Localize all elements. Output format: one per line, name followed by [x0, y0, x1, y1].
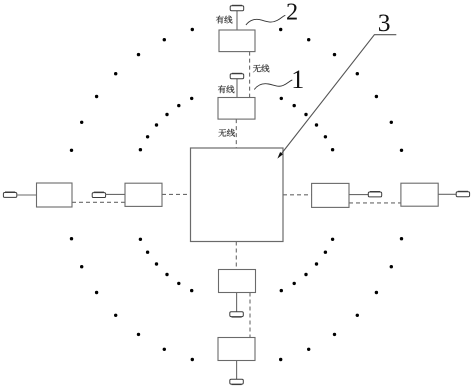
- wireless dashed link gateway-rightbox1: [283, 194, 312, 196]
- wireless dashed link nodeA-nodeB: [249, 293, 251, 338]
- node 2 box: [219, 30, 255, 52]
- left node 2 box: [125, 183, 162, 206]
- label 有线 (wired) lower: [218, 85, 234, 93]
- arrowhead for 3: [277, 152, 283, 159]
- bottom node B box: [218, 338, 255, 361]
- wireless dashed link rightbox1-rightbox2: [349, 202, 401, 204]
- leader squiggle for 1: [254, 80, 292, 90]
- wireless dashed link node1-gateway: [235, 119, 237, 148]
- wire stem left node 2: [106, 193, 125, 195]
- leader squiggle for 2: [246, 15, 285, 25]
- antenna cap, node 1: [230, 73, 244, 78]
- leader line for 3: [280, 35, 396, 155]
- label 无线 (wireless) upper: [253, 64, 269, 72]
- antenna cap, right node 1: [368, 192, 381, 197]
- antenna cap, left node 2: [92, 192, 105, 197]
- antenna cap, bottom node B: [230, 379, 244, 384]
- svg-text:3: 3: [378, 8, 391, 37]
- node 1 box: [218, 98, 255, 120]
- bottom chain: dashed gateway-boxA: [235, 242, 237, 270]
- wire stem node A: [236, 293, 238, 312]
- wire: antenna stem for top node 2: [236, 11, 238, 30]
- far-left node box: [37, 183, 73, 207]
- wire stem far-left node: [17, 194, 37, 196]
- wireless dashed link leftbox1-leftbox2: [72, 201, 125, 203]
- wireless dashed link node2-node1: [249, 52, 251, 98]
- antenna cap, far-left node: [3, 192, 16, 197]
- wireless dashed link leftbox2-gateway: [162, 193, 191, 195]
- dotted coverage circles (dots): [70, 28, 403, 361]
- central gateway box 3: [191, 148, 284, 242]
- svg-text:2: 2: [286, 0, 298, 26]
- antenna cap, bottom node A: [230, 312, 244, 317]
- antenna cap, node 2: [230, 5, 244, 10]
- svg-text:1: 1: [291, 65, 304, 94]
- right node 2 box: [401, 183, 438, 206]
- label 无线 (wireless) lower: [219, 129, 235, 137]
- bottom node A box: [219, 270, 256, 293]
- wire stem right node 2: [438, 193, 456, 195]
- wire stem right node 1: [349, 194, 368, 196]
- antenna cap, far-right node: [456, 191, 469, 196]
- right node 1 box: [312, 183, 349, 207]
- wire stem node B: [236, 361, 238, 380]
- label 有线 (wired) upper: [216, 16, 232, 24]
- wire: antenna stem for node 1: [236, 79, 238, 98]
